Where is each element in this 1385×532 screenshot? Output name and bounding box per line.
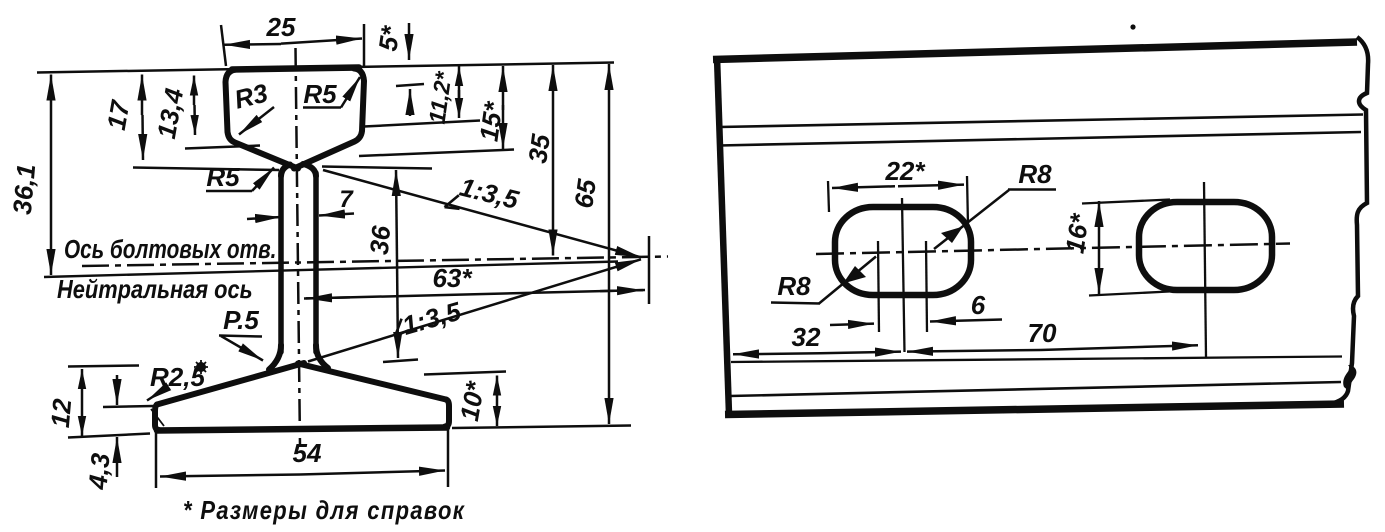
svg-text:R8: R8	[1018, 159, 1052, 189]
svg-text:Нейтральная ось: Нейтральная ось	[57, 275, 253, 304]
svg-text:R5: R5	[303, 79, 337, 109]
svg-text:65: 65	[568, 177, 602, 210]
svg-text:Ось болтовых отв.: Ось болтовых отв.	[64, 235, 276, 264]
svg-text:16*: 16*	[1060, 210, 1095, 255]
svg-text:36: 36	[364, 224, 396, 256]
svg-text:7: 7	[339, 186, 354, 213]
svg-text:70: 70	[1028, 318, 1057, 348]
svg-text:36,1: 36,1	[7, 163, 41, 216]
svg-text:54: 54	[293, 438, 322, 468]
svg-text:32: 32	[792, 322, 821, 352]
svg-text:22*: 22*	[884, 156, 926, 186]
svg-text:R8: R8	[777, 271, 811, 301]
svg-text:35: 35	[522, 132, 556, 165]
svg-text:* Размеры для справок: * Размеры для справок	[183, 496, 466, 525]
svg-text:15*: 15*	[474, 98, 509, 143]
svg-text:R5: R5	[206, 162, 240, 192]
svg-text:4,3: 4,3	[82, 451, 115, 491]
svg-text:63*: 63*	[432, 263, 473, 293]
svg-text:P.5: P.5	[223, 305, 259, 335]
svg-text:6: 6	[971, 290, 986, 320]
svg-text:25: 25	[266, 12, 296, 42]
svg-text:12: 12	[45, 397, 77, 429]
